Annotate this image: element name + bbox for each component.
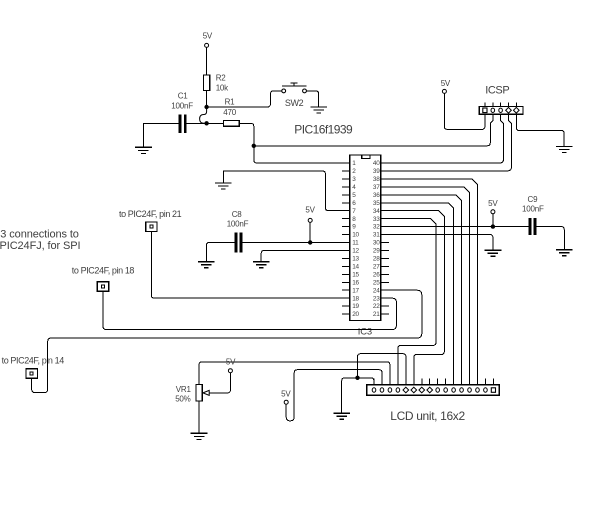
svg-text:100nF: 100nF	[522, 205, 544, 214]
connector ICSP	[479, 106, 523, 114]
svg-text:C1: C1	[178, 92, 189, 101]
LCD pin 16 pad	[491, 388, 495, 393]
svg-text:28: 28	[373, 256, 380, 263]
svg-text:IC3: IC3	[358, 327, 372, 338]
wire SW2 to ground	[307, 91, 319, 107]
wire C8 rail pin11	[206, 243, 234, 262]
ICSP pin 2 stub	[492, 103, 494, 107]
IC pin 13 stub	[342, 257, 350, 259]
wire gnd branch to LCD pin5	[358, 354, 406, 385]
svg-text:29: 29	[373, 248, 380, 255]
IC pin 23 stub	[381, 297, 389, 299]
wire 5V U-turn to LCD pin2	[286, 370, 382, 421]
LCD pin 12 pad	[460, 388, 464, 392]
IC pin 16 stub	[342, 281, 350, 283]
5V supply C9	[491, 210, 495, 214]
wire IC pin33 to LCD pin4	[389, 219, 436, 385]
wire LCD ground rail	[342, 378, 374, 413]
wire C1 left	[143, 124, 178, 148]
LCD pin 5 pad	[403, 387, 409, 393]
svg-text:21: 21	[373, 311, 380, 318]
LCD pin 4 pad	[396, 388, 400, 392]
5V supply ICSP	[442, 89, 446, 93]
svg-text:12: 12	[352, 248, 359, 255]
IC pin 10 stub	[342, 234, 350, 236]
svg-text:34: 34	[373, 208, 380, 215]
IC pin 34 stub	[381, 210, 389, 212]
IC pin 32 stub	[381, 226, 389, 228]
wire IC pin12 to ground	[261, 250, 342, 261]
svg-text:to PIC24F, pin 18: to PIC24F, pin 18	[72, 265, 135, 275]
svg-text:33: 33	[373, 216, 380, 223]
capacitor C9	[528, 218, 531, 235]
IC pin 5 stub	[342, 194, 350, 196]
LCD pin 13 stub	[469, 379, 471, 385]
svg-text:10k: 10k	[216, 83, 229, 92]
svg-text:19: 19	[352, 303, 359, 310]
svg-text:13: 13	[352, 256, 359, 263]
IC pin 20 stub	[342, 313, 350, 315]
LCD pin 5 stub	[405, 379, 407, 385]
svg-text:100nF: 100nF	[227, 220, 249, 229]
ICSP pin 3 pad	[499, 108, 503, 112]
svg-text:50%: 50%	[175, 395, 190, 404]
IC pin 33 stub	[381, 218, 389, 220]
resistor R2	[204, 75, 210, 91]
svg-text:14: 14	[352, 263, 359, 270]
IC pin 12 stub	[342, 249, 350, 251]
wire IC pin7 to ground	[223, 171, 341, 211]
IC pin 19 stub	[342, 305, 350, 307]
wire IC pin34 to LCD pin6	[389, 211, 444, 385]
wire ICSP pin5 to ground	[516, 114, 564, 146]
junction R2/R1/SW2	[204, 105, 208, 109]
svg-text:PIC24FJ, for SPI: PIC24FJ, for SPI	[0, 240, 80, 252]
svg-text:38: 38	[373, 176, 380, 183]
svg-text:25: 25	[373, 279, 380, 286]
svg-text:5V: 5V	[226, 358, 236, 367]
svg-text:11: 11	[352, 240, 359, 247]
connector LCD	[367, 385, 500, 396]
IC pin 38 stub	[381, 178, 389, 180]
LCD pin 13 pad	[468, 388, 472, 392]
IC pin 36 stub	[381, 194, 389, 196]
wire IC pin31 to ground	[389, 235, 493, 250]
svg-text:470: 470	[223, 108, 236, 117]
ground C9	[556, 250, 573, 256]
svg-text:100nF: 100nF	[171, 101, 193, 110]
svg-text:15: 15	[352, 271, 359, 278]
wire IC pin23 to terminal18	[103, 291, 397, 329]
wire IC pin 37 to LCD	[389, 187, 469, 385]
wire R1 to MCLR junction	[239, 123, 254, 146]
LCD pin 6 pad	[411, 387, 417, 393]
svg-text:C9: C9	[528, 195, 539, 204]
svg-text:36: 36	[373, 192, 380, 199]
IC pin 21 stub	[381, 313, 389, 315]
resistor R1	[223, 120, 239, 126]
svg-text:ICSP: ICSP	[485, 85, 509, 97]
wire 5V to R2	[206, 47, 208, 75]
ground LCD	[333, 413, 350, 419]
svg-text:3 connections to: 3 connections to	[0, 228, 79, 240]
ground pin7	[215, 183, 232, 189]
svg-text:27: 27	[373, 263, 380, 270]
wire C8 to pin11	[243, 242, 342, 244]
IC pin 30 stub	[381, 242, 389, 244]
LCD pin 15 pad	[484, 388, 488, 392]
LCD pin 9 stub	[437, 379, 439, 385]
ground pin12	[253, 262, 270, 268]
IC pin 22 stub	[381, 305, 389, 307]
LCD pin 10 stub	[445, 379, 447, 385]
wire MCLR to IC pin1	[254, 146, 342, 163]
terminal to PIC24F pin 14	[26, 369, 37, 379]
svg-text:5V: 5V	[488, 199, 498, 208]
IC pin 11 stub	[342, 242, 350, 244]
svg-text:5V: 5V	[281, 389, 291, 398]
svg-text:37: 37	[373, 184, 380, 191]
IC pin 3 stub	[342, 178, 350, 180]
svg-text:31: 31	[373, 232, 380, 239]
capacitor C1	[179, 114, 182, 133]
5V supply VR1	[228, 369, 232, 373]
svg-text:SW2: SW2	[285, 98, 304, 108]
wire VR1 top to LCD pin3	[199, 362, 390, 385]
capacitor C8	[235, 233, 238, 253]
svg-text:32: 32	[373, 224, 380, 231]
svg-text:C8: C8	[232, 210, 243, 219]
wire terminal21 to IC pin18	[151, 232, 341, 299]
LCD pin 3 pad	[388, 388, 392, 392]
ICSP pin 2 pad	[491, 108, 495, 112]
ICSP pin 1 stub	[484, 103, 486, 107]
svg-text:26: 26	[373, 271, 380, 278]
LCD pin 8 pad	[427, 387, 433, 393]
wire junction to R1	[207, 122, 224, 124]
IC pin 8 stub	[342, 218, 350, 220]
wire IC pin 38 to LCD	[389, 179, 477, 385]
IC pin 14 stub	[342, 265, 350, 267]
IC pin 15 stub	[342, 273, 350, 275]
LCD pin 3 stub	[389, 379, 391, 385]
wire ICSP pin3 to IC pin40	[389, 114, 503, 163]
wire IC pin 36 to LCD	[389, 195, 461, 385]
IC pin 27 stub	[381, 265, 389, 267]
svg-text:23: 23	[373, 295, 380, 302]
junction pin32 5V	[491, 224, 495, 228]
svg-text:30: 30	[373, 240, 380, 247]
svg-text:LCD unit, 16x2: LCD unit, 16x2	[390, 409, 465, 423]
svg-text:VR1: VR1	[176, 385, 192, 394]
LCD pin 1 pad	[372, 388, 376, 392]
LCD pin 7 pad	[419, 387, 425, 393]
ground VR1	[191, 433, 208, 439]
IC pin 29 stub	[381, 249, 389, 251]
IC pin 6 stub	[342, 202, 350, 204]
LCD pin 14 stub	[476, 379, 478, 385]
wire R2 to junction	[206, 91, 208, 108]
junction pin11 5V	[308, 240, 312, 244]
LCD pin 11 pad	[452, 388, 456, 392]
IC pin 28 stub	[381, 257, 389, 259]
LCD pin 4 stub	[397, 379, 399, 385]
IC pin 31 stub	[381, 234, 389, 236]
svg-text:to PIC24F, pin 21: to PIC24F, pin 21	[119, 209, 182, 219]
svg-text:20: 20	[352, 311, 359, 318]
ICSP pin 4 pad	[506, 107, 512, 113]
ICSP pin 1 pad	[483, 107, 519, 113]
LCD pin 15 stub	[484, 379, 486, 385]
svg-text:PIC16f1939: PIC16f1939	[294, 123, 353, 137]
svg-text:24: 24	[373, 287, 380, 294]
IC pin 26 stub	[381, 273, 389, 275]
svg-text:5V: 5V	[305, 205, 315, 214]
terminal to PIC24F pin 21	[146, 222, 157, 232]
5V supply C8	[308, 218, 312, 222]
IC pin 37 stub	[381, 186, 389, 188]
ground ICSP	[556, 147, 573, 153]
IC pin 2 stub	[342, 170, 350, 172]
IC pin 4 stub	[342, 186, 350, 188]
wire IC pin 35 to LCD	[389, 203, 453, 385]
wire C9 to ground	[536, 227, 564, 250]
junction MCLR	[252, 144, 256, 148]
junction LCD gnd	[355, 376, 359, 380]
wire ICSP pin4 to IC pin39	[389, 114, 511, 171]
IC pin 40 stub	[381, 162, 389, 164]
svg-text:5V: 5V	[441, 79, 451, 88]
LCD pin 11 stub	[453, 379, 455, 385]
potentiometer VR1	[196, 384, 202, 401]
svg-text:16: 16	[352, 279, 359, 286]
svg-text:10: 10	[352, 232, 359, 239]
switch SW2	[282, 89, 307, 93]
IC pin 9 stub	[342, 226, 350, 228]
IC U1 PIC16f1939 body	[350, 155, 381, 321]
svg-text:40: 40	[373, 160, 380, 167]
LCD pin 9 pad	[436, 388, 440, 392]
wire C1 to junction	[187, 123, 207, 125]
IC pin 17 stub	[342, 289, 350, 291]
LCD pin 7 stub	[421, 379, 423, 385]
IC pin 24 stub	[381, 289, 389, 291]
LCD pin 6 stub	[413, 379, 415, 385]
LCD pin 2 stub	[381, 379, 383, 385]
5V supply top	[205, 43, 209, 47]
svg-text:18: 18	[352, 295, 359, 302]
svg-text:35: 35	[373, 200, 380, 207]
ground SW2	[310, 107, 327, 113]
IC pin 7 stub	[342, 210, 350, 212]
5V supply LCD	[284, 400, 288, 404]
LCD pin 12 stub	[461, 379, 463, 385]
ICSP pin 5 pad	[513, 107, 519, 113]
LCD pin 16 stub	[492, 379, 494, 385]
LCD pin 2 pad	[380, 388, 384, 392]
wire junction to SW2	[207, 91, 282, 107]
LCD pin 1 stub	[373, 379, 375, 385]
wire 5V to wiper	[209, 373, 230, 393]
svg-text:17: 17	[352, 287, 359, 294]
IC pin 39 stub	[381, 170, 389, 172]
svg-text:39: 39	[373, 168, 380, 175]
ICSP pin 5 stub	[515, 103, 517, 107]
IC pin 25 stub	[381, 281, 389, 283]
VR1 wiper arrow	[203, 390, 209, 395]
svg-text:22: 22	[373, 303, 380, 310]
ICSP pin 4 stub	[508, 103, 510, 107]
svg-text:5V: 5V	[203, 32, 213, 41]
wire 5V to pin11 rail	[309, 222, 311, 242]
LCD pin 14 pad	[476, 388, 480, 392]
svg-text:R2: R2	[216, 74, 227, 83]
LCD pin 8 stub	[429, 379, 431, 385]
ICSP pin 3 stub	[500, 103, 502, 107]
wire VR1 bottom to ground	[198, 401, 200, 433]
svg-text:R1: R1	[225, 98, 236, 107]
ground pin31	[485, 250, 502, 256]
wire ICSP pin2 to MCLR	[254, 114, 493, 146]
wire hop junction1 to junction2	[200, 107, 207, 123]
wire 5V to pin32 rail	[492, 214, 494, 227]
ground C8 left	[198, 262, 215, 268]
IC pin 35 stub	[381, 202, 389, 204]
IC pin 1 stub	[342, 162, 350, 164]
LCD pin 10 pad	[444, 388, 448, 392]
wire 5V to ICSP pin1	[444, 93, 485, 129]
wire pin32 rail	[389, 226, 528, 228]
terminal to PIC24F pin 18	[97, 282, 108, 292]
svg-text:to PIC24F, pin 14: to PIC24F, pin 14	[2, 355, 65, 365]
IC pin 18 stub	[342, 297, 350, 299]
junction C1/R1	[204, 121, 208, 125]
wire IC pin24 to terminal14	[32, 290, 422, 392]
ground C1	[135, 147, 152, 153]
IC notch	[362, 155, 370, 158]
